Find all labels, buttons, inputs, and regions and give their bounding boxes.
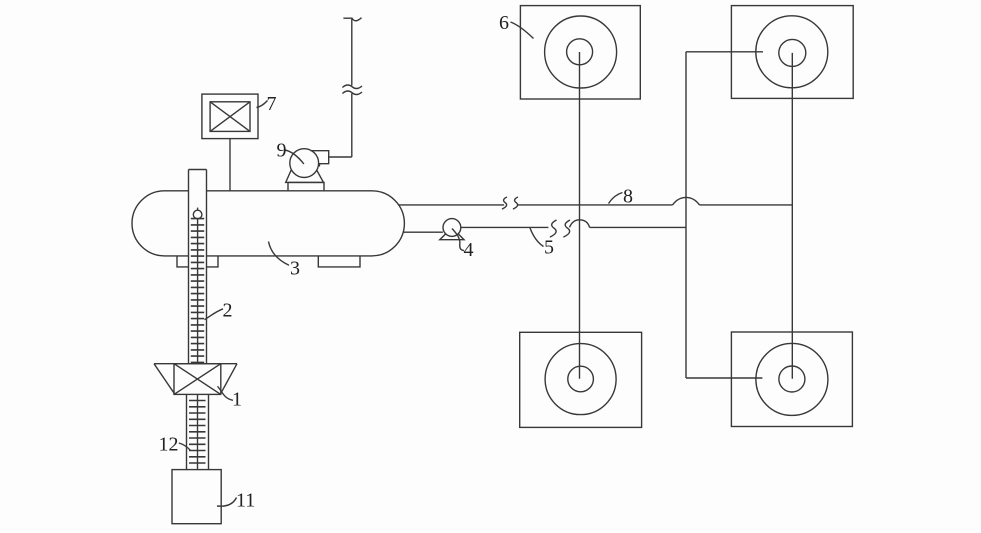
tank 3 (horizontal capsule vessel) (132, 191, 404, 256)
leader for 7 (257, 101, 268, 108)
fan box (bottom-right) (731, 332, 852, 427)
valve 1 body rect with X (174, 364, 221, 395)
motor box 11 (172, 470, 221, 524)
wire: riser pipe (351, 19, 353, 157)
leader for 12 (179, 443, 191, 451)
pump 9 circle (290, 149, 319, 178)
wire: pipe 8 from tank to right column (399, 204, 504, 206)
leader for 3 (269, 242, 290, 266)
leader for 5 (530, 228, 544, 247)
wire: top horizontal into top-right fan center (686, 51, 763, 53)
valve 1 right wing diagonal (220, 364, 237, 395)
wire: middle vertical x=686 (685, 52, 687, 378)
svg-text:7: 7 (267, 93, 277, 115)
svg-text:5: 5 (544, 237, 554, 259)
fan box 6 (top-left) (520, 6, 640, 99)
valve 4 circle (443, 219, 461, 237)
pump 9 outlet (311, 151, 329, 167)
gauge float circle (193, 210, 202, 219)
leader for 1 (218, 386, 234, 400)
svg-text:2: 2 (223, 300, 233, 322)
svg-text:9: 9 (277, 140, 287, 162)
svg-text:1: 1 (232, 389, 242, 411)
valve 1 top flange line (154, 363, 237, 365)
leader for 9 (285, 150, 304, 164)
svg-text:8: 8 (623, 186, 633, 208)
svg-text:4: 4 (464, 239, 474, 261)
wire: stem from box 7 to tank (229, 139, 231, 191)
tank left foot (177, 256, 218, 267)
leader for 4 (452, 229, 464, 251)
pump 9 pedestal (288, 182, 324, 190)
leader for 11 (217, 498, 237, 507)
wire: lower pipe 5 from valve to vertical x=686 (461, 226, 549, 228)
fan box (bottom-left) (520, 332, 642, 427)
lower pipe jump-over hump at x=579.5 (570, 220, 590, 228)
level gauge 2 white body (189, 170, 207, 364)
riser break tilde lower (342, 91, 362, 95)
wire: pump outlet to riser (329, 156, 352, 158)
wire: right column vertical (top-right center to bottom-right center) (791, 53, 793, 379)
valve 1 left wing diagonal (154, 364, 175, 395)
wire: bottom horizontal into bottom-right fan center (686, 377, 762, 379)
lower pipe break squiggle right (563, 220, 570, 237)
gauge center line upper (197, 219, 199, 364)
leader for 6 (511, 22, 534, 39)
svg-text:3: 3 (290, 258, 300, 280)
pump 9 base trapezoid (286, 171, 324, 183)
instrument box 7 inner with X (210, 102, 250, 132)
gauge rungs upper (191, 219, 204, 363)
leader for 2 (205, 309, 224, 320)
svg-text:12: 12 (159, 434, 179, 456)
lower pipe break squiggle left (550, 220, 557, 237)
leader for 8 (609, 193, 623, 204)
riser break tilde upper (342, 85, 362, 89)
level gauge rails upper (189, 170, 207, 364)
instrument box 7 outer (202, 94, 258, 139)
svg-text:6: 6 (499, 12, 509, 34)
screw rod 12 rails lower (187, 394, 209, 469)
valve 4 (pump symbol: triangle base) (440, 228, 464, 240)
pipe 8 break squiggle left (502, 197, 507, 209)
fan box (top-right) (731, 6, 853, 99)
pipe 8 break squiggle right (513, 197, 518, 209)
svg-text:11: 11 (236, 490, 255, 512)
wire: left column vertical (top-left box to bottom-left box) (579, 52, 581, 379)
pipe 8 jump-over hump at x=686 (673, 197, 700, 205)
wire: lower pipe from tank to valve 4 (403, 231, 443, 233)
screw rod center line (197, 394, 199, 469)
screw rod rungs (189, 401, 206, 464)
riser top break tilde (343, 18, 361, 21)
tank right foot (318, 256, 360, 267)
